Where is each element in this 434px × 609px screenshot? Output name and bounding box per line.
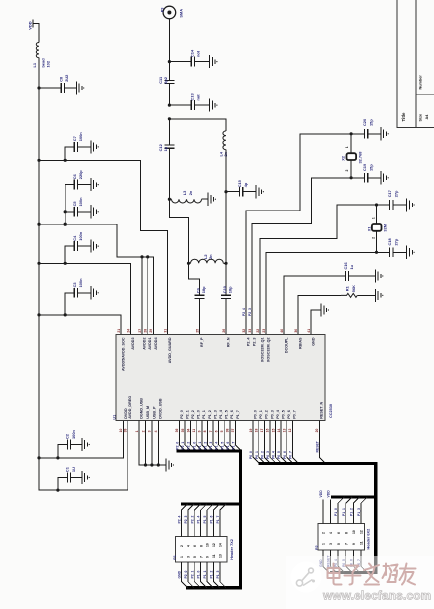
- svg-text:P2_1: P2_1: [185, 410, 189, 419]
- resistor R1: [341, 293, 357, 297]
- wire P1 top P1_6: [213, 504, 219, 537]
- svg-text:12: 12: [360, 530, 364, 534]
- capacitor C3: [65, 293, 74, 315]
- svg-text:P0_6: P0_6: [283, 451, 287, 459]
- wire P1 bottom P1_0: [201, 562, 207, 588]
- wire VDD to L1: [33, 23, 39, 42]
- svg-text:1: 1: [345, 146, 349, 148]
- svg-text:38: 38: [226, 429, 230, 433]
- svg-text:P1_0: P1_0: [197, 570, 201, 578]
- node L4-C15: [224, 190, 227, 193]
- svg-text:P1_2: P1_2: [208, 410, 212, 419]
- svg-text:P1_3: P1_3: [213, 410, 217, 419]
- svg-text:P2_0: P2_0: [180, 410, 184, 419]
- svg-text:23: 23: [262, 329, 266, 333]
- svg-text:4: 4: [187, 545, 191, 547]
- svg-text:18p: 18p: [227, 286, 232, 293]
- svg-text:36: 36: [175, 429, 179, 433]
- wire net P2_2 to bus: [191, 421, 197, 452]
- svg-text:1U: 1U: [71, 467, 76, 472]
- svg-text:14: 14: [277, 429, 281, 433]
- ground for C2: [82, 438, 88, 451]
- svg-text:100n: 100n: [78, 231, 83, 240]
- wire branch AVDD net to pins 27 28 29: [39, 224, 153, 334]
- svg-text:40: 40: [280, 329, 284, 333]
- svg-text:P1_3: P1_3: [209, 442, 213, 450]
- svg-text:RESET_N: RESET_N: [320, 401, 324, 418]
- wire net P1_5 to bus: [224, 421, 230, 452]
- ground for C16: [375, 269, 381, 282]
- wire P1 bottom P1_1: [207, 562, 213, 588]
- wire to C9: [189, 263, 200, 295]
- svg-text:P2_4: P2_4: [242, 308, 246, 316]
- svg-text:C20: C20: [362, 119, 367, 126]
- wire SMA down: [168, 19, 170, 62]
- wire net RESET to bus: [319, 421, 325, 464]
- crystal X2 32.768k: [350, 134, 352, 153]
- svg-text:P2_3: P2_3: [248, 308, 252, 316]
- capacitor C15: [226, 191, 240, 193]
- svg-text:VDD: VDD: [27, 21, 32, 30]
- ground for USB pins: [166, 458, 172, 471]
- node rail-C6C5 branch: [37, 223, 40, 226]
- svg-text:P0_1: P0_1: [259, 410, 263, 419]
- svg-text:P1_5: P1_5: [220, 442, 224, 450]
- capacitor C8: [39, 87, 61, 89]
- svg-text:P1_1: P1_1: [198, 442, 202, 450]
- connector P3 SMA: [163, 6, 176, 19]
- svg-text:4: 4: [329, 532, 333, 534]
- svg-text:C17: C17: [387, 190, 392, 197]
- node VDD rail junction: [37, 86, 40, 89]
- wire DVDD_USB pin4: [157, 421, 159, 466]
- svg-text:11: 11: [192, 429, 196, 433]
- svg-text:P0_2: P0_2: [260, 451, 264, 459]
- svg-text:AVDD5/AVDD_SOC: AVDD5/AVDD_SOC: [121, 337, 125, 371]
- wire net P0_6 to bus: [287, 421, 293, 464]
- svg-text:P0_5: P0_5: [277, 451, 281, 459]
- ground for C8: [76, 81, 82, 94]
- node ant-C14: [168, 60, 171, 63]
- wire P1 top P2_4: [181, 504, 187, 537]
- wire L4 to C15 node: [225, 150, 227, 192]
- svg-text:12: 12: [212, 543, 216, 547]
- svg-text:P2_0: P2_0: [184, 570, 188, 578]
- svg-text:32M: 32M: [383, 224, 388, 232]
- wire X1 bottom to pin23: [266, 252, 377, 334]
- svg-text:1: 1: [135, 430, 139, 432]
- svg-text:DVDD_USB: DVDD_USB: [159, 398, 163, 419]
- wire net P1_3 to bus: [213, 421, 219, 452]
- svg-text:P2_3: P2_3: [252, 338, 256, 347]
- svg-text:P0_0: P0_0: [254, 410, 258, 419]
- svg-text:6: 6: [337, 532, 341, 534]
- wire AVDD_DREG pin 39 to rail bottom: [39, 421, 128, 491]
- svg-text:26: 26: [222, 329, 226, 333]
- svg-text:3: 3: [148, 430, 152, 432]
- svg-text:P1_6: P1_6: [210, 515, 214, 523]
- svg-text:P1_6: P1_6: [226, 442, 230, 450]
- wire USB_M pin2: [145, 421, 147, 466]
- svg-text:P0_2: P0_2: [265, 410, 269, 419]
- wire pin27 drop: [141, 257, 143, 335]
- svg-text:P1_1: P1_1: [342, 508, 346, 516]
- svg-text:P0_3: P0_3: [270, 410, 274, 419]
- svg-text:XOSC32M_Q1: XOSC32M_Q1: [260, 338, 264, 363]
- wire USB_P pin3: [151, 421, 153, 466]
- svg-text:USB_M: USB_M: [146, 406, 150, 419]
- wire pin40 to C16: [284, 276, 345, 335]
- ground for R1: [375, 289, 381, 302]
- wire net P0_0 to bus: [253, 421, 259, 464]
- svg-text:P2_2: P2_2: [191, 410, 195, 419]
- svg-text:CC2530: CC2530: [329, 404, 333, 418]
- svg-text:www.elecfans.com: www.elecfans.com: [322, 589, 431, 603]
- svg-text:P1_6: P1_6: [230, 410, 234, 419]
- svg-text:28: 28: [144, 329, 148, 333]
- ground for C7: [91, 140, 97, 153]
- wire P2 bottom P0_5: [346, 550, 352, 572]
- svg-text:RESET: RESET: [315, 440, 319, 452]
- svg-text:DGND_USB: DGND_USB: [140, 398, 144, 419]
- wire branch AVDD3 net to pin 24: [39, 263, 131, 334]
- svg-text:C4: C4: [72, 235, 77, 241]
- svg-text:15p: 15p: [369, 119, 374, 126]
- wire P1 top P1_5: [207, 504, 213, 537]
- svg-text:5: 5: [220, 430, 224, 432]
- svg-text:24: 24: [126, 329, 130, 333]
- svg-text:P0_0: P0_0: [249, 451, 253, 459]
- ground for pin 41: [321, 303, 327, 316]
- ground for C3: [91, 286, 97, 299]
- svg-text:C7: C7: [72, 136, 77, 141]
- svg-text:not: not: [195, 94, 200, 101]
- inductor L2: [191, 259, 224, 263]
- svg-text:P1_0: P1_0: [197, 410, 201, 419]
- capacitor C14: [169, 61, 191, 63]
- bus P2 main: [259, 464, 376, 573]
- svg-text:P2_2: P2_2: [190, 515, 194, 523]
- svg-text:2: 2: [345, 170, 349, 172]
- wire P1 bottom GND: [181, 562, 187, 588]
- node rail-C3 branch: [37, 313, 40, 316]
- ground for C20: [381, 127, 387, 140]
- svg-text:P0_1: P0_1: [255, 451, 259, 459]
- svg-text:GND: GND: [178, 570, 182, 578]
- capacitor C13: [169, 104, 191, 106]
- wire net P1_6 to bus: [230, 421, 236, 452]
- svg-text:18: 18: [255, 429, 259, 433]
- svg-text:8: 8: [199, 545, 203, 547]
- svg-text:Number: Number: [419, 75, 423, 90]
- wire branch AVDD5 net to pin 21: [39, 315, 121, 335]
- svg-text:P1_7: P1_7: [236, 410, 240, 419]
- wire P2 bottom P0_4: [338, 550, 344, 572]
- wire net P0_5 to bus: [281, 421, 287, 464]
- power symbol VDD: [32, 19, 34, 27]
- node C1 tap: [56, 489, 59, 492]
- wire P1 bottom P1_3: [220, 562, 226, 588]
- wire P1 top P1_4: [201, 504, 207, 537]
- svg-text:P1_7: P1_7: [216, 515, 220, 523]
- svg-text:22: 22: [256, 329, 260, 333]
- wire pin32 to X2 top: [246, 134, 351, 335]
- svg-text:18p: 18p: [201, 286, 206, 293]
- capacitor C19: [351, 177, 364, 179]
- svg-text:P3: P3: [160, 7, 165, 13]
- wire net P0_4 to bus: [276, 421, 282, 464]
- wire net P1_0 to bus: [196, 421, 202, 452]
- svg-text:10: 10: [352, 530, 356, 534]
- wire P2 top P1_2: [353, 497, 359, 524]
- svg-text:P0_4: P0_4: [272, 451, 276, 459]
- svg-text:100n: 100n: [71, 430, 76, 439]
- ground for C17: [407, 198, 413, 211]
- wire branch to L4: [169, 119, 226, 131]
- node pin27 tap: [140, 255, 143, 258]
- svg-text:7: 7: [344, 543, 348, 545]
- node usb gnd a: [144, 463, 147, 466]
- svg-text:R1: R1: [344, 285, 349, 291]
- node L2 right: [224, 262, 227, 265]
- wire C6 C5 stub: [64, 185, 66, 225]
- wire DGND_USB pin1: [139, 421, 166, 466]
- node rail DVDD: [37, 456, 40, 459]
- svg-text:2n: 2n: [208, 254, 213, 259]
- ground for C4: [91, 240, 97, 253]
- wire pin30 to R1: [298, 295, 341, 334]
- svg-text:P1_2: P1_2: [210, 570, 214, 578]
- node L3 tap: [168, 198, 171, 201]
- svg-text:25: 25: [195, 329, 199, 333]
- wire net P1_4 to bus: [219, 421, 225, 452]
- capacitor C17: [377, 204, 390, 206]
- svg-text:P1_1: P1_1: [202, 410, 206, 419]
- wire P1 bottom P2_0: [188, 562, 194, 588]
- svg-text:12: 12: [288, 429, 292, 433]
- crystal X1 32M: [376, 205, 378, 224]
- wire P1 bottom P1_2: [213, 562, 219, 588]
- node rail-C4 branch: [37, 262, 40, 265]
- svg-text:C6: C6: [72, 173, 77, 179]
- node L2 left: [187, 262, 190, 265]
- svg-text:not: not: [195, 50, 200, 57]
- svg-text:Title: Title: [401, 112, 406, 122]
- svg-text:C14: C14: [189, 49, 194, 57]
- svg-text:17: 17: [260, 429, 264, 433]
- watermark underlay: [286, 556, 434, 609]
- bus P1 upper: [177, 451, 241, 588]
- svg-text:39: 39: [124, 429, 128, 433]
- wire P2 bottom P0_6: [353, 550, 359, 572]
- svg-text:P1_3: P1_3: [357, 508, 361, 516]
- wire X2 bottom to pin33: [252, 178, 351, 335]
- node C5 tap: [64, 210, 67, 213]
- svg-text:41: 41: [307, 329, 311, 333]
- svg-text:P2_0: P2_0: [176, 442, 180, 450]
- wire P1 bottom P2_1: [194, 562, 200, 588]
- svg-text:P0_6: P0_6: [287, 410, 291, 419]
- ground for C6: [91, 178, 97, 191]
- svg-text:P0_7: P0_7: [293, 410, 297, 419]
- svg-text:13: 13: [283, 429, 287, 433]
- svg-text:16: 16: [266, 429, 270, 433]
- svg-text:1: 1: [180, 556, 184, 558]
- svg-text:35: 35: [181, 429, 185, 433]
- svg-text:P1: P1: [173, 555, 177, 560]
- bus P2 header top: [331, 495, 375, 498]
- wire P2 bottom GND: [323, 550, 329, 572]
- capacitor C9: [195, 295, 205, 298]
- wire P2 top P1_3: [361, 497, 367, 524]
- svg-text:2: 2: [322, 532, 326, 534]
- capacitor C12: [168, 119, 170, 145]
- svg-text:DCOUPL: DCOUPL: [284, 337, 288, 353]
- svg-text:27p: 27p: [394, 190, 399, 197]
- svg-text:15p: 15p: [369, 164, 374, 171]
- inductor L4: [223, 131, 226, 150]
- node C3 stub junction: [64, 313, 67, 316]
- node C4 stub junction: [64, 262, 67, 265]
- svg-text:14: 14: [219, 543, 223, 547]
- wire P2 top P1_1: [346, 497, 352, 524]
- svg-text:P2_2: P2_2: [187, 442, 191, 450]
- svg-text:P1_0: P1_0: [334, 508, 338, 516]
- wire L1 to rail junction: [38, 58, 40, 88]
- node C2 tap: [56, 456, 59, 459]
- wire P2 bottom RESET: [330, 550, 336, 572]
- svg-text:Size: Size: [419, 114, 423, 122]
- svg-text:4p: 4p: [243, 182, 248, 187]
- svg-text:8: 8: [203, 430, 207, 432]
- node usb gnd b: [150, 463, 153, 466]
- svg-text:P1_5: P1_5: [225, 410, 229, 419]
- connector P2 Header 6X2 body: [318, 524, 365, 551]
- node X2 top: [350, 132, 353, 135]
- wire VDD rail: [38, 88, 40, 490]
- svg-text:11: 11: [212, 554, 216, 558]
- svg-text:C8: C8: [59, 76, 64, 82]
- wire pin28 drop: [147, 257, 149, 335]
- svg-text:6: 6: [214, 430, 218, 432]
- wire branch AVDD_GUARD net: [39, 160, 168, 334]
- ground for C18: [407, 246, 413, 259]
- svg-text:P2: P2: [315, 545, 319, 550]
- svg-text:1: 1: [322, 543, 326, 545]
- node C7 stub junction: [64, 159, 67, 162]
- svg-text:C16: C16: [343, 262, 348, 270]
- svg-text:4: 4: [154, 430, 158, 432]
- svg-text:30: 30: [294, 329, 298, 333]
- svg-text:102: 102: [46, 60, 51, 67]
- svg-text:RBIAS: RBIAS: [298, 337, 302, 349]
- svg-text:C13: C13: [189, 93, 194, 101]
- svg-text:AVDD3: AVDD3: [131, 338, 135, 350]
- node C13-L4 branch: [168, 117, 171, 120]
- svg-text:3: 3: [187, 556, 191, 558]
- svg-text:10: 10: [206, 543, 210, 547]
- capacitor C2: [58, 445, 67, 458]
- svg-text:P2_4: P2_4: [178, 515, 182, 523]
- svg-text:VDD: VDD: [319, 490, 323, 498]
- svg-text:X2: X2: [341, 155, 346, 161]
- svg-text:AVDD2: AVDD2: [142, 338, 146, 350]
- svg-text:P1_7: P1_7: [232, 442, 236, 450]
- wire pin41 to ground: [311, 310, 321, 335]
- svg-text:X1: X1: [366, 226, 371, 232]
- svg-text:P2_3: P2_3: [184, 515, 188, 523]
- svg-text:P0_3: P0_3: [266, 451, 270, 459]
- svg-text:C18: C18: [387, 238, 392, 246]
- ground for C5: [91, 205, 97, 218]
- svg-text:56K: 56K: [351, 285, 356, 292]
- watermark logo circle: [291, 562, 322, 593]
- ground for C19: [381, 171, 387, 184]
- svg-text:XOSC32M_Q2: XOSC32M_Q2: [266, 338, 270, 363]
- capacitor C5: [65, 211, 74, 213]
- node pin28 tap: [146, 255, 149, 258]
- wire net P1_1 to bus: [202, 421, 208, 452]
- svg-text:P1_2: P1_2: [350, 508, 354, 516]
- svg-text:3: 3: [329, 543, 333, 545]
- svg-text:2p2: 2p2: [163, 76, 168, 84]
- svg-text:P1_3: P1_3: [216, 570, 220, 578]
- svg-text:31: 31: [163, 329, 167, 333]
- svg-text:1p: 1p: [163, 146, 168, 151]
- svg-text:P1_5: P1_5: [203, 515, 207, 523]
- svg-text:7: 7: [209, 430, 213, 432]
- capacitor C11: [168, 62, 170, 81]
- node C6C5 stub junction: [64, 223, 67, 226]
- svg-text:P1_4: P1_4: [219, 409, 223, 419]
- wire P1 top P2_2: [194, 504, 200, 537]
- svg-text:AVDD4: AVDD4: [154, 337, 158, 350]
- node usb gnd c: [157, 463, 160, 466]
- svg-text:1: 1: [372, 217, 376, 219]
- svg-text:9: 9: [352, 543, 356, 545]
- svg-text:P0_7: P0_7: [288, 451, 292, 459]
- svg-text:C5: C5: [72, 201, 77, 207]
- node rail-C7 branch: [37, 159, 40, 162]
- svg-text:100n: 100n: [78, 197, 83, 206]
- svg-text:2: 2: [180, 545, 184, 547]
- wire net P0_7 to bus: [292, 421, 298, 464]
- capacitor C6: [65, 184, 74, 186]
- watermark text dian zi fa shao you (drawn glyphs): [328, 564, 416, 585]
- svg-text:37: 37: [231, 429, 235, 433]
- capacitor C18: [377, 251, 390, 253]
- wire P2 VDD b: [329, 500, 331, 524]
- svg-text:19: 19: [249, 429, 253, 433]
- svg-text:5: 5: [193, 556, 197, 558]
- node X1 bottom: [375, 251, 378, 254]
- svg-text:32: 32: [242, 329, 246, 333]
- svg-text:2n: 2n: [188, 190, 193, 195]
- svg-text:SMA: SMA: [179, 9, 184, 18]
- capacitor C1: [58, 478, 67, 491]
- IC U1 CC2530 body: [116, 335, 325, 421]
- inductor L1: [36, 43, 39, 58]
- wire P1 top P2_3: [188, 504, 194, 537]
- svg-text:GND: GND: [311, 337, 315, 346]
- svg-text:C3: C3: [72, 282, 77, 288]
- capacitor C10: [225, 263, 227, 295]
- svg-text:15: 15: [271, 429, 275, 433]
- svg-text:USB_P: USB_P: [152, 406, 156, 419]
- wire net P0_1 to bus: [259, 421, 265, 464]
- wire net P2_1 to bus: [185, 421, 191, 452]
- wire net P0_2 to bus: [264, 421, 270, 464]
